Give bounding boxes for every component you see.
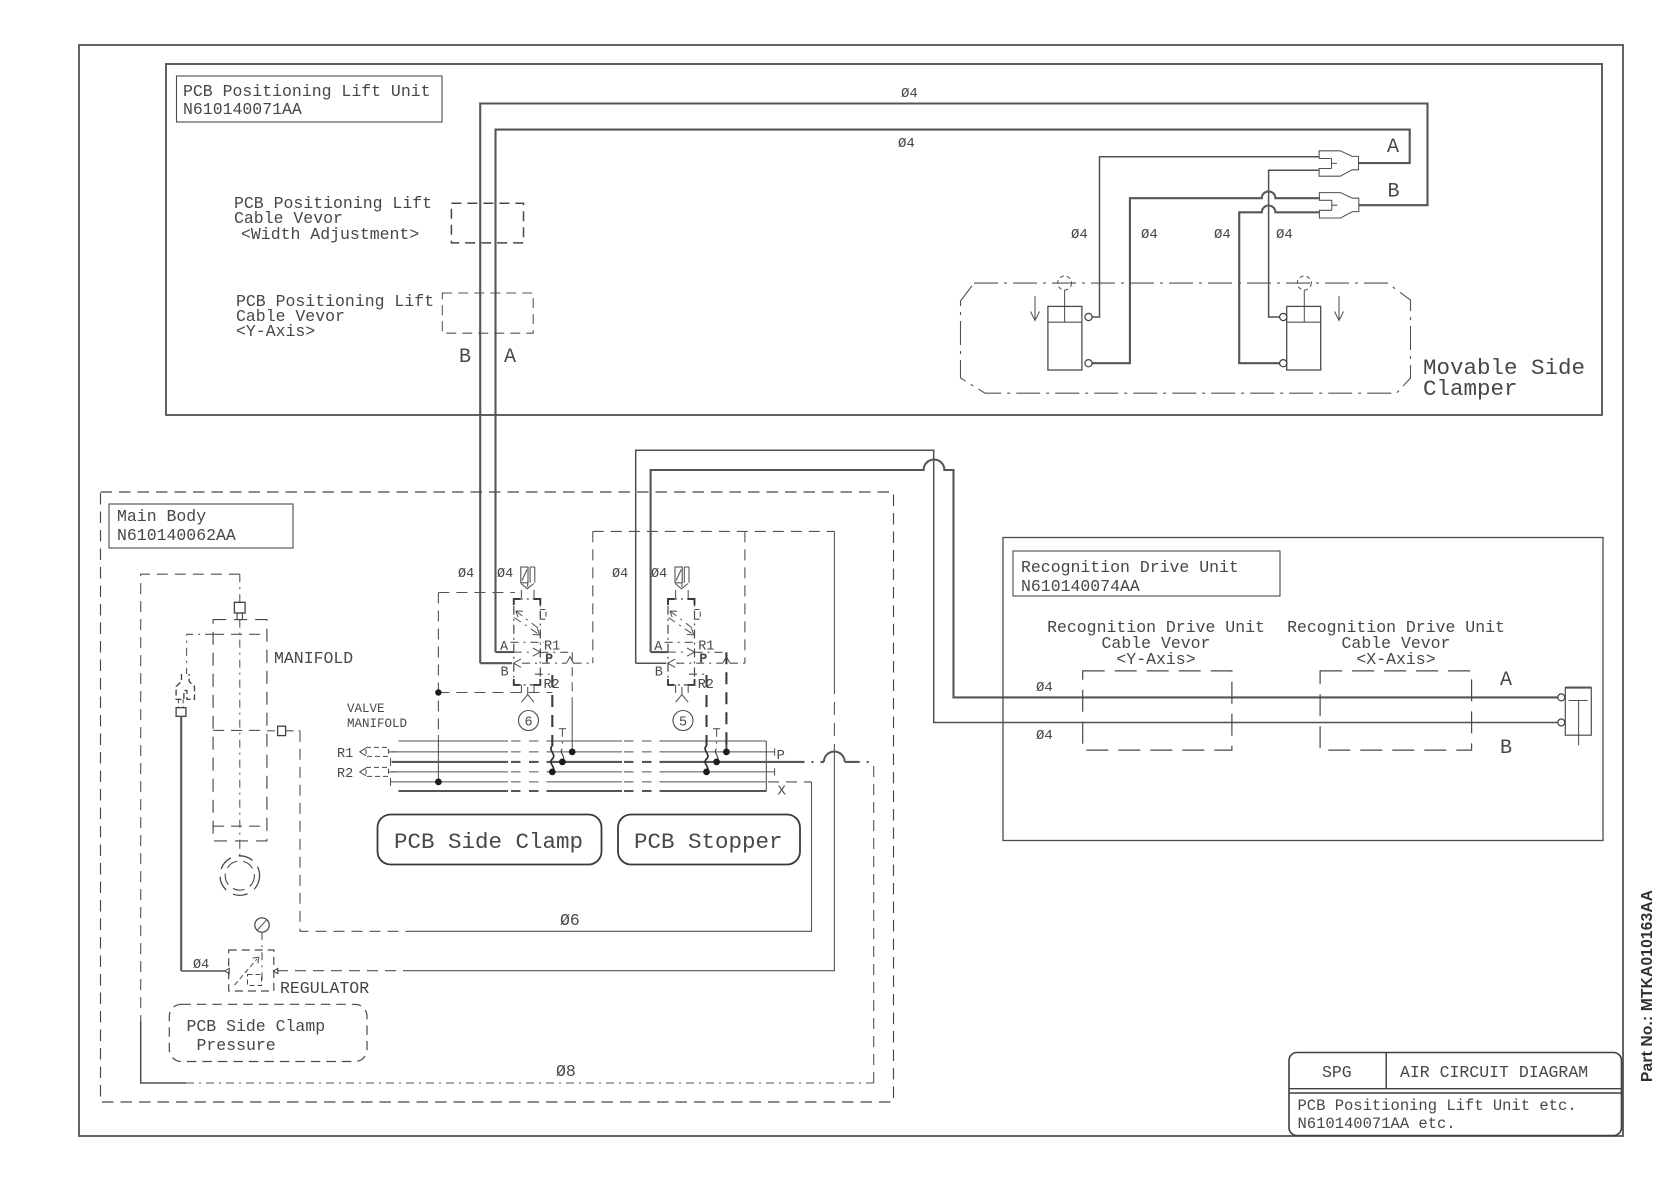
manifold body [213,620,267,841]
svg-text:Ø4: Ø4 [1214,227,1231,243]
svg-text:PCB Positioning Lift Unit etc.: PCB Positioning Lift Unit etc. [1298,1097,1577,1115]
svg-text:Ø4: Ø4 [497,567,513,582]
svg-text:Main Body: Main Body [117,507,206,526]
valve V5 T stub to P bus [713,728,720,730]
port R1 inlet connector [360,747,398,756]
movable side clamper dash-dot enclosure [961,283,1411,393]
PCB Side Clamp rounded label box [378,815,602,865]
PCB Side Clamp Pressure dashed rounded box [169,1004,367,1061]
valve V6 top stub [521,583,534,599]
title block frame [1289,1053,1622,1136]
svg-text:PCB Side Clamp: PCB Side Clamp [394,829,583,855]
Main Body label box [109,504,293,548]
svg-text:<Y-Axis>: <Y-Axis> [236,322,315,341]
valve V6 R1 drain chain and drop [540,651,572,653]
svg-text:MANIFOLD: MANIFOLD [274,649,353,668]
wire connector A to right clamper upper port [1269,170,1320,317]
svg-text:Pressure: Pressure [197,1036,276,1055]
cable vevor x-axis dashed box recognition [1320,671,1472,750]
valve manifold rail P bus thick [392,761,508,763]
PCB Positioning Lift Unit label box [177,76,443,122]
svg-text:PCB Stopper: PCB Stopper [634,829,783,855]
X bus dashed extension [768,781,812,783]
svg-text:Ø8: Ø8 [556,1062,576,1081]
valve manifold rail R1 bus [391,751,508,753]
valve V6 down arrowhead [521,584,534,589]
connector B quick coupler [1319,193,1358,218]
left clamper cylinder body [1048,290,1082,370]
valve V6 body [514,599,541,685]
svg-text:Clamper: Clamper [1423,376,1518,402]
svg-text:SPG: SPG [1322,1063,1352,1082]
right clamper pivot dashed circle [1297,276,1311,290]
Recognition Drive Unit enclosure box [1003,538,1603,841]
svg-text:MANIFOLD: MANIFOLD [347,717,407,731]
junction dot R2 bus valve 6 [549,769,556,776]
valve V6 body corner ticks [514,599,541,685]
svg-text:Ø4: Ø4 [1141,227,1158,243]
svg-text:R1: R1 [337,747,353,762]
manifold inlet fitting [234,602,245,619]
Recognition Drive Unit label box [1013,551,1280,596]
regulator output loop to pilot line [277,970,407,972]
right clamper lower port [1280,360,1287,367]
valve manifold rail X bus [391,781,509,783]
wire connector B to left clamper lower port with crossover bump [1092,191,1319,363]
regulator gauge [255,918,269,932]
pilot drop valve 5 [744,531,746,663]
manifold right outlet fitting [267,726,300,735]
valve V6 flow diagonals [514,611,540,635]
svg-text:<X-Axis>: <X-Axis> [1356,650,1435,669]
svg-text:6: 6 [524,715,532,730]
svg-text:X: X [778,784,787,800]
regulator body [225,932,278,991]
supply loop diameter 8 right riser to P line [873,762,875,1083]
regulator supply line [181,970,224,972]
PCB Stopper rounded label box [618,815,800,865]
svg-text:Ø4: Ø4 [1036,728,1053,744]
valve V6 port B chain with hump to pilot [522,662,566,664]
valve V6 port A wire arrow [496,651,514,653]
valve V5 port B chain with hump to pilot [676,662,723,664]
cable vevor width adjustment dashed box [451,203,523,243]
svg-text:5: 5 [679,715,687,730]
valve V5 body [668,599,695,685]
svg-text:Ø6: Ø6 [560,911,580,930]
svg-text:Ø4: Ø4 [1071,227,1088,243]
valve V6 pilot solenoid [521,567,528,583]
svg-text:VALVE: VALVE [347,702,385,716]
svg-text:A: A [1387,136,1399,159]
valve V6 T stub to P bus [559,728,566,730]
svg-text:A: A [1500,669,1512,692]
junction dot R2 bus valve 5 [703,769,710,776]
svg-text:Recognition Drive Unit: Recognition Drive Unit [1021,558,1239,577]
svg-text:N610140074AA: N610140074AA [1021,577,1140,596]
station bracket dashed lines valve 6 [438,593,552,736]
svg-text:B: B [459,346,471,369]
pilot X loop from manifold to valve manifold X port [300,731,407,932]
P bus chain extension with bump over pilot riser [790,761,824,763]
wire A-circuit from valve V6 port A up and across to connector A [496,130,1410,653]
valve manifold right end wall [765,741,767,791]
svg-text:REGULATOR: REGULATOR [280,979,369,998]
junction dot bracket cross [435,689,441,695]
Y coupler fitting [176,674,194,716]
svg-text:PCB Side Clamp: PCB Side Clamp [187,1017,326,1036]
valve V5 R1 drain chain and thick dashed drop [695,651,726,653]
recognition axis cylinder [1565,688,1591,746]
valve manifold rail 6 thick [398,790,508,792]
solenoid valve V5 [665,567,701,702]
svg-text:Ø4: Ø4 [651,567,667,582]
svg-text:B: B [501,666,509,681]
cable vevor y-axis dashed box recognition [1083,671,1232,750]
svg-text:P: P [699,653,707,668]
svg-text:B: B [1388,181,1400,204]
left clamper down arrow [1031,296,1040,321]
supply loop diameter 8 left riser [141,574,240,1021]
valve V5 pilot solenoid [675,567,682,583]
title block double rule [1289,1088,1622,1090]
port R2 inlet connector [360,767,398,776]
junction dot R1 bus valve 6 [569,749,576,756]
wire valve V5 port B to recognition cylinder B [636,450,1558,722]
Main Body dashed enclosure [101,492,894,1102]
recognition cylinder port A [1558,694,1565,701]
valve V6 bottom stub and exhaust [521,685,534,699]
svg-text:Ø4: Ø4 [898,136,915,152]
valve V6 R2 drain chain and thick drop with flex [535,673,553,676]
right clamper upper port [1280,313,1287,320]
svg-text:P: P [545,653,553,668]
junction dot X bus [435,779,442,786]
circled number 5 [673,711,693,731]
left clamper upper port [1085,313,1092,320]
valve V5 port row chain [665,641,699,643]
pilot drop valve 6 [592,531,594,663]
svg-text:Ø4: Ø4 [1036,680,1053,696]
manifold bottom silencer circle [220,841,260,895]
svg-text:N610140062AA: N610140062AA [117,526,236,545]
valve V5 body corner ticks [668,599,695,685]
svg-text:P: P [777,748,785,764]
manifold top chain stub [239,574,241,602]
valve V6 side tab [540,610,546,620]
left clamper pivot dashed circle [1058,276,1072,290]
valve V5 flow diagonals [668,611,694,635]
svg-text:A: A [504,346,516,369]
valve V5 port B wire arrow [636,662,667,664]
svg-text:AIR CIRCUIT DIAGRAM: AIR CIRCUIT DIAGRAM [1400,1063,1588,1082]
svg-text:N610140071AA: N610140071AA [183,100,302,119]
valve V5 R2 drain chain and thick drop with flex [689,673,707,676]
svg-text:PCB Positioning Lift Unit: PCB Positioning Lift Unit [183,82,431,101]
right clamper cylinder body [1287,290,1321,370]
cable vevor y-axis dashed box [442,293,533,333]
valve V5 side tab [695,610,701,620]
svg-text:<Width Adjustment>: <Width Adjustment> [241,225,419,244]
svg-text:Part No.: MTKA010163AA: Part No.: MTKA010163AA [1639,890,1656,1082]
solenoid valve V6 [511,567,547,702]
valve manifold rail 1 [398,740,508,742]
junction dot P bus valve 5 [713,759,720,766]
pilot line from regulator riser to valves [593,530,835,532]
right clamper down arrow [1335,296,1344,321]
svg-text:Ø4: Ø4 [1276,227,1293,243]
valve V5 port A wire arrow [651,651,668,653]
title block divider SPG cell [1385,1053,1387,1089]
PCB Positioning Lift Unit enclosure box [166,64,1602,415]
bus end ticks [391,748,775,786]
wire connector B to right clamper lower port with crossover bump [1239,206,1319,364]
svg-text:Ø4: Ø4 [612,567,628,582]
recognition cylinder port B [1558,719,1565,726]
svg-text:Ø4: Ø4 [901,86,918,102]
wire connector A to left clamper upper port [1092,157,1319,317]
svg-text:B: B [655,666,663,681]
valve V6 port row chain [511,641,545,643]
supply drop line to regulator [180,716,182,971]
svg-text:R2: R2 [337,767,353,782]
circled number 6 [519,711,539,731]
junction dot P bus valve 6 [559,759,566,766]
valve V6 port B wire arrow [480,662,512,664]
left clamper lower port [1085,360,1092,367]
connector A quick coupler [1319,151,1358,176]
valve manifold rail R2 bus [391,771,508,773]
junction dot R1 bus valve 5 [723,749,730,756]
svg-text:Ø4: Ø4 [458,567,474,582]
valve V5 down arrowhead [675,584,688,589]
wire valve V5 port A to recognition cylinder A with crossover bump [651,460,1558,698]
svg-text:<Y-Axis>: <Y-Axis> [1116,650,1195,669]
wire B-circuit from valve V6 port B up and across to connector B [480,104,1427,664]
svg-text:N610140071AA etc.: N610140071AA etc. [1298,1115,1456,1133]
valve V5 top stub [676,583,689,599]
svg-text:B: B [1500,737,1512,760]
manifold left branch chain [187,634,214,674]
valve V5 bottom stub and exhaust [676,685,689,699]
supply loop diameter 8 bottom run [186,1082,874,1084]
